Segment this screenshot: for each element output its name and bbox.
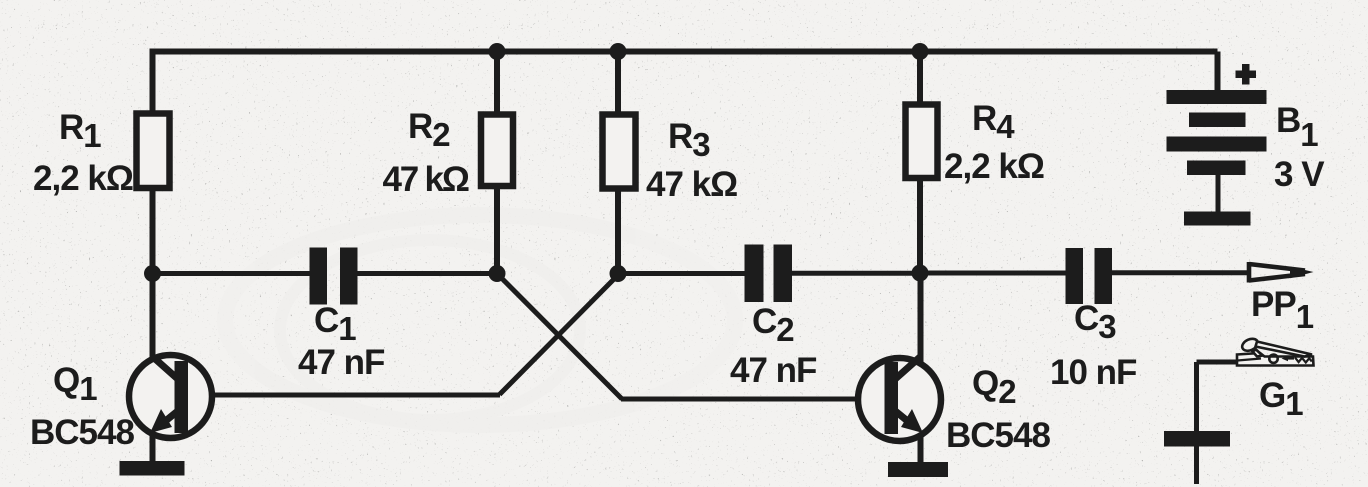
wire R2 bottom lead [494, 185, 500, 274]
wire C1 to R2 junction [356, 271, 497, 276]
resistor R2 [481, 115, 513, 187]
wire diagonal R2 junction to Q2 base [498, 274, 623, 399]
transistor Q1 base bar [175, 361, 189, 433]
capacitor C1 left plate [310, 248, 328, 305]
capacitor C3 left plate [1066, 248, 1084, 304]
battery B1 plus sign [1236, 71, 1257, 79]
wire G1 horizontal [1197, 360, 1241, 365]
wire C3 to probe [1111, 270, 1249, 275]
transistor Q2 emitter stroke [894, 410, 910, 423]
wire battery negative link [1216, 174, 1221, 213]
ground Q2 [888, 462, 948, 477]
capacitor C3 right plate [1095, 248, 1113, 304]
svg-text:BC548: BC548 [946, 416, 1050, 455]
node mid rail R1 junction [144, 265, 161, 282]
svg-text:2,2 kΩ: 2,2 kΩ [944, 147, 1044, 186]
node top rail R2 junction [489, 43, 506, 60]
battery B1 plate 1 (positive long) [1167, 90, 1267, 104]
node top rail R4 junction [912, 43, 929, 60]
capacitor C1 right plate [340, 248, 358, 305]
transistor Q2 emitter arrowhead [901, 409, 923, 433]
transistor Q1 collector stroke [153, 357, 180, 381]
wire R1 top lead [150, 49, 156, 115]
svg-text:BC548: BC548 [30, 413, 134, 452]
wire Q1 emitter tail [150, 426, 156, 461]
svg-text:47 kΩ: 47 kΩ [383, 160, 469, 199]
svg-text:3 V: 3 V [1274, 155, 1325, 194]
ground Q1 [120, 461, 185, 476]
wire Q1 base horizontal [188, 393, 500, 398]
battery B1 [1167, 64, 1267, 226]
svg-text:47 nF: 47 nF [730, 351, 817, 390]
svg-text:47 nF: 47 nF [298, 343, 385, 382]
wire R2 top lead [494, 52, 500, 116]
capacitor C2 right plate [774, 245, 793, 303]
capacitor C2 left plate [745, 245, 764, 303]
probe PP1 [1249, 262, 1314, 283]
battery B1 plate 2 (short) [1189, 113, 1246, 128]
wire R4 top lead [917, 52, 923, 106]
svg-text:47 kΩ: 47 kΩ [646, 165, 737, 204]
wire battery drop [1215, 52, 1221, 92]
alligator clip G1 [1237, 337, 1314, 366]
wire Q2 emitter tail [918, 426, 924, 462]
transistor Q2 collector stroke [893, 357, 920, 381]
svg-text:2,2 kΩ: 2,2 kΩ [33, 159, 133, 198]
battery B1 negative terminal bar [1184, 212, 1251, 226]
transistor Q1 emitter stroke [163, 410, 179, 423]
svg-text:10 nF: 10 nF [1050, 353, 1137, 392]
transistor Q2 envelope circle [858, 358, 941, 441]
transistor Q2 base bar [885, 362, 899, 434]
transistor Q2 [858, 357, 941, 441]
node mid rail R2 junction [489, 265, 506, 282]
resistor R4 [906, 105, 938, 179]
wire R4 bottom lead [917, 178, 923, 274]
wire R3 bottom lead [615, 188, 621, 274]
wire C2 to R4 junction [791, 271, 920, 276]
wire R4 junction to C3 [920, 271, 1067, 276]
wire Q2 base horizontal [621, 397, 884, 402]
wire R3 junction to C2 [618, 271, 746, 276]
resistor R1 [137, 114, 170, 189]
wire R3 top lead [615, 52, 621, 116]
transistor Q1 emitter arrowhead [150, 409, 172, 433]
transistor Q1 envelope circle [129, 355, 212, 438]
node mid rail R3 junction [610, 265, 627, 282]
wire Q2 collector [918, 273, 924, 364]
transistor Q1 [129, 355, 212, 438]
wire mid rail R1 to C1 [152, 271, 311, 276]
faint scan watermark [225, 215, 735, 425]
node top rail R3 junction [610, 43, 627, 60]
ground G1 [1164, 431, 1230, 447]
wire top rail [152, 49, 1218, 55]
node mid rail R4 junction [912, 265, 929, 282]
wire G1 vertical [1194, 362, 1199, 484]
resistor R3 [603, 115, 636, 189]
wire diagonal R3 junction to Q1 base [500, 275, 619, 395]
battery B1 plate 3 (long) [1167, 137, 1267, 152]
wire R1 bottom lead [150, 187, 156, 274]
wire Q1 collector [150, 274, 156, 365]
battery B1 plate 4 (short) [1187, 161, 1246, 176]
